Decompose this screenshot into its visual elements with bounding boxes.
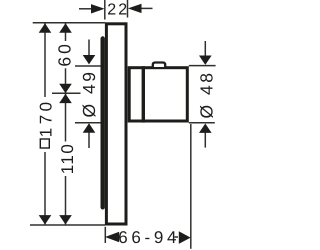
wire top extension line (top of plate): [33, 22, 105, 24]
arrowhead 66-94 left pointing left: [105, 232, 119, 242]
dimension 66-94 line stubs: [118, 236, 120, 238]
arrowhead 22 right pointing left: [128, 4, 142, 13]
escutcheon plate (side view): [106, 24, 126, 224]
wire ext line 22 right: [127, 0, 129, 18]
arrowhead D49 bottom up: [83, 123, 96, 132]
svg-text:22: 22: [107, 2, 129, 19]
wire bottom extension line (bottom of plate): [30, 224, 105, 226]
svg-text:170: 170: [36, 98, 55, 137]
wire ext line 22 left: [104, 0, 106, 20]
flange strip behind plate: [101, 36, 105, 209]
dimension D48 line tails: [204, 41, 206, 58]
wire left ext line bottom of hole: [75, 122, 101, 124]
arrowhead 110 up: [59, 94, 72, 103]
dimension 60/110 line: [65, 23, 67, 41]
arrowhead D48 top down: [199, 56, 212, 65]
arrowhead 170 up: [39, 23, 52, 32]
svg-text:110: 110: [58, 143, 77, 175]
arrowhead 60 down: [59, 84, 72, 93]
arrowhead 60 up: [59, 23, 72, 32]
wire center extension line: [52, 92, 81, 94]
svg-text:60: 60: [55, 41, 75, 66]
arrowhead 110 down: [59, 215, 72, 224]
button bump on handle top: [153, 63, 165, 67]
wire right ext line bottom of handle: [189, 122, 215, 124]
svg-text:Ø 48: Ø 48: [196, 71, 216, 119]
svg-text:66-94: 66-94: [118, 228, 180, 247]
wire left ext line top of hole: [75, 65, 101, 67]
dimension 22 leader right: [141, 7, 153, 9]
svg-text:Ø 49: Ø 49: [79, 70, 99, 118]
arrowhead D48 bottom up: [199, 124, 212, 133]
wire ext line 66-94 right: [190, 124, 192, 249]
dimension 22 leader left: [79, 8, 92, 10]
divider between sleeve and handle: [142, 66, 145, 122]
wire ext line 66-94 left: [104, 227, 106, 243]
arrowhead 170 down: [39, 215, 52, 224]
arrowhead 66-94 right pointing right: [179, 231, 191, 244]
arrowhead 22 left pointing right: [91, 4, 105, 13]
dimension D49 line tails: [88, 40, 90, 59]
arrowhead D49 top down: [83, 55, 96, 64]
valve body / handle (side view): [129, 68, 187, 121]
dimension 170 line: [44, 23, 46, 97]
wire right ext line top of handle: [189, 65, 216, 67]
label 170 square glyph: [40, 139, 49, 148]
